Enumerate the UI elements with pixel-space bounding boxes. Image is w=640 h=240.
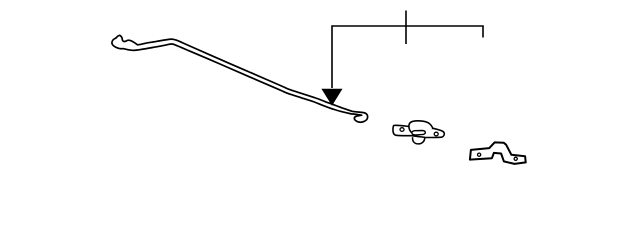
grommet dome outline: [409, 121, 433, 132]
hood support rod: [112, 35, 368, 122]
leader arrowhead: [322, 89, 341, 105]
grommet left mounting hole: [400, 128, 404, 132]
offset bracket right hole: [514, 157, 517, 160]
offset bracket: [470, 142, 526, 164]
offset bracket left hole: [478, 153, 481, 156]
callout bracket line: [332, 11, 483, 89]
callout tick: [405, 11, 407, 45]
grommet dome fill: [409, 121, 433, 132]
grommet lower flange: [413, 137, 425, 144]
grommet oval hole: [412, 131, 426, 135]
grommet right mounting hole: [434, 132, 438, 136]
grommet bracket plate: [393, 125, 444, 137]
